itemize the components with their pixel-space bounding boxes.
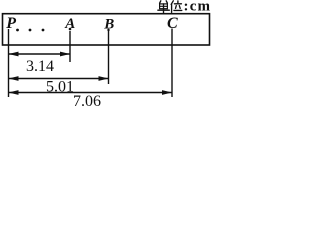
- svg-text:B: B: [103, 16, 114, 32]
- svg-text:P: P: [5, 15, 16, 32]
- svg-text:C: C: [167, 15, 178, 32]
- svg-text::cm: :cm: [184, 0, 212, 15]
- svg-text:7.06: 7.06: [73, 93, 101, 107]
- svg-text:A: A: [64, 16, 75, 32]
- svg-text:3.14: 3.14: [26, 58, 54, 75]
- svg-text:5.01: 5.01: [46, 79, 74, 96]
